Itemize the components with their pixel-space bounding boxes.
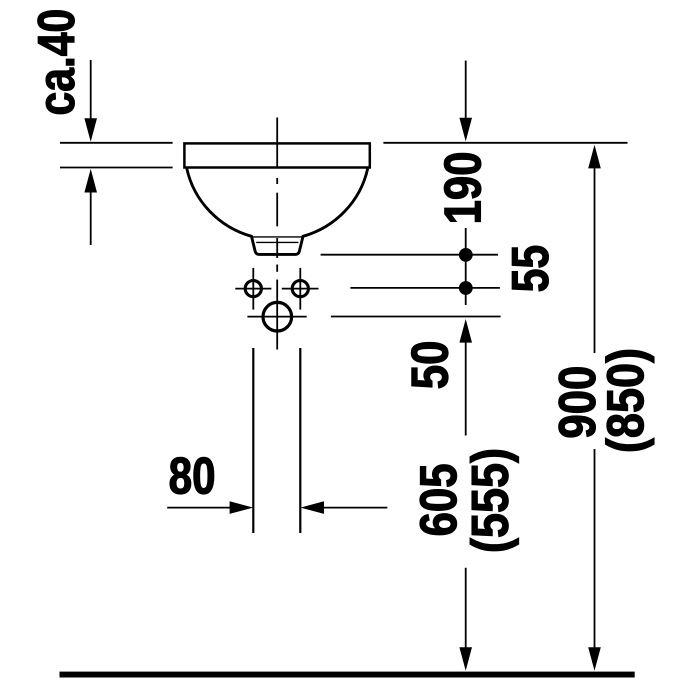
label ca.40 (38, 11, 75, 114)
dimension chain line through dots (465, 228, 467, 305)
dimension 900 lower shaft and arrow (down) (594, 449, 596, 648)
reference line at tap hole level (331, 316, 501, 318)
drain recess line A (252, 236, 303, 238)
label 605 (420, 465, 457, 535)
label (555) (470, 450, 519, 551)
washbasin rim (184, 143, 369, 167)
label 50 (411, 342, 448, 388)
label 80 (170, 457, 214, 494)
dimension 605 lower shaft and arrow (down) (465, 568, 467, 648)
washbasin bowl outline with drain funnel (187, 169, 368, 255)
dimension dot at drain level (459, 248, 473, 262)
dimension dot at faucet level (459, 281, 473, 295)
large tap hole circle (263, 302, 292, 331)
faucet hole right circle (292, 281, 308, 297)
dimension ca.40 lower arrow (up) (84, 169, 97, 193)
faucet hole left crosshair vertical (252, 268, 254, 310)
label 55 (512, 246, 548, 291)
dimension 190 top arrow (down) (465, 61, 467, 119)
faucet hole right crosshair horizontal (282, 288, 319, 290)
vertical centerline segments (276, 118, 278, 350)
dimension 80 right line and arrow (left-pointing) (300, 501, 324, 514)
faucet hole left circle (245, 281, 261, 297)
dimension 80 left line and arrow (right-pointing) (167, 507, 231, 509)
dimension 900 upper arrow (up) (588, 145, 601, 169)
countertop bottom line (left) (60, 167, 173, 169)
drain recess line B (256, 241, 298, 243)
label 190 (444, 153, 481, 221)
faucet hole right crosshair vertical (299, 268, 301, 310)
drain pipe left line (252, 348, 254, 533)
reference line at drain bottom level (321, 254, 498, 256)
drain pipe right line (299, 348, 301, 533)
label 900 (559, 368, 596, 438)
label (850) (606, 350, 655, 451)
countertop top line (left) (60, 142, 173, 144)
dimension 605 upper arrow (up) (459, 319, 472, 343)
faucet hole left crosshair horizontal (235, 288, 271, 290)
dimension ca.40 upper arrow (down) (90, 60, 92, 120)
floor line (60, 672, 635, 678)
top reference line (right of rim) (383, 142, 627, 144)
large tap hole crosshair horizontal (247, 316, 306, 318)
reference line at faucet hole level (350, 287, 500, 289)
